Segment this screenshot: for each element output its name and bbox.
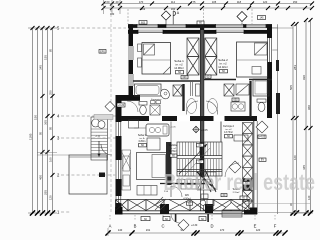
svg-text:A: A: [109, 224, 112, 229]
bedroom2 bed: [237, 42, 268, 77]
bottom grid letters A-F: [109, 215, 277, 229]
vent diamond left with section mark A: [161, 11, 179, 24]
entry plants: [92, 119, 100, 127]
bathroom1 door arc: [127, 101, 138, 112]
svg-text:170: 170: [139, 0, 144, 4]
svg-text:112: 112: [171, 0, 176, 4]
WC room label: [183, 193, 192, 205]
bottom small value boxes: [141, 217, 206, 221]
WC sink: [200, 200, 205, 205]
svg-text:250: 250: [49, 90, 53, 95]
right vertical dimension chain: [289, 18, 313, 216]
right exterior wall upper bedroom: [267, 24, 293, 118]
bottom exterior wall: [115, 204, 257, 222]
svg-text:603: 603: [183, 76, 188, 79]
svg-text:14.98m²: 14.98m²: [174, 66, 184, 70]
svg-text:+6.20: +6.20: [118, 104, 125, 107]
bathroom1 bathtub: [135, 84, 162, 96]
entry level diamond: [105, 102, 125, 112]
svg-text:603: 603: [234, 98, 239, 101]
stair label Stubiste: [169, 144, 178, 157]
entry door arc with arrow: [97, 141, 112, 157]
top wall extension dashes: [128, 9, 252, 24]
label Kuhinja 2: [223, 124, 234, 138]
hall door arc right: [206, 101, 218, 115]
small table: [147, 138, 160, 150]
right wall insulation x-braced band: [243, 123, 253, 212]
window inner frames lower left: [122, 150, 131, 190]
top horizontal dimension chain: [102, 0, 315, 16]
bottom door arc: [171, 214, 180, 223]
bathroom1 sink: [159, 88, 171, 101]
terrace label right: [221, 188, 240, 197]
bottom door diamond +2.30: [178, 220, 198, 231]
left grid labels 1-5: [57, 26, 126, 215]
svg-text:+2.30: +2.30: [191, 224, 198, 227]
svg-text:155: 155: [44, 55, 48, 60]
svg-text:120: 120: [49, 195, 53, 200]
svg-text:283: 283: [293, 65, 297, 70]
stair hall side walls: [171, 122, 221, 143]
bathroom1 toilet: [139, 102, 147, 115]
svg-text:EPS: EPS: [100, 50, 105, 53]
svg-text:+4.05: +4.05: [259, 136, 266, 139]
exterior entry stair: [91, 117, 108, 160]
terrace door diamond: [256, 121, 268, 162]
svg-text:B: B: [134, 224, 137, 229]
bottom horizontal dimension chain: [105, 228, 287, 236]
right terrace boundary wall: [272, 24, 280, 214]
bathroom2 duct x-box: [224, 84, 234, 96]
level marker +4.05: [193, 126, 208, 132]
svg-text:95: 95: [39, 131, 43, 135]
svg-text:F: F: [274, 224, 277, 229]
WC door arc: [164, 186, 182, 197]
svg-text:95: 95: [49, 126, 53, 130]
svg-text:460: 460: [39, 175, 43, 180]
kitchen2 counter: [234, 135, 248, 141]
bathroom2 toilet: [257, 99, 266, 112]
vertical grid dash line A: [110, 4, 112, 214]
top wall label box: [139, 21, 147, 25]
central party wall: [200, 24, 204, 211]
bathroom1 duct x-box: [173, 85, 182, 96]
kitchen1 fridge: [129, 120, 139, 128]
svg-text:255: 255: [44, 190, 48, 195]
bathroom value boxes: [232, 98, 239, 101]
bathroom2 shower: [253, 79, 269, 96]
right exterior wall lower: [254, 121, 257, 214]
door diamond right hall: [229, 161, 241, 173]
bathroom1 glass lines: [191, 82, 201, 96]
dining table: [137, 153, 168, 180]
svg-text:960: 960: [307, 105, 311, 110]
svg-text:85: 85: [49, 48, 53, 52]
svg-text:EV: EV: [261, 159, 265, 162]
kitchen counter strip WC room: [181, 185, 202, 190]
balcony door opening triangle: [122, 153, 131, 170]
left vertical dimension chain: [28, 26, 69, 216]
svg-text:+2.55: +2.55: [95, 136, 101, 138]
svg-text:505: 505: [289, 85, 293, 90]
bathroom zone bottom heavy wall: [121, 116, 257, 122]
hatched strip above WC: [177, 180, 212, 185]
left exterior wall upper: [128, 24, 133, 97]
svg-text:603: 603: [141, 21, 146, 24]
door arc right hall: [225, 163, 239, 177]
svg-text:100: 100: [110, 12, 115, 16]
svg-text:231: 231: [146, 228, 151, 232]
room label Soba 2: [218, 58, 228, 73]
svg-text:8.73m²: 8.73m²: [169, 150, 176, 153]
stair left wall hatched: [166, 142, 172, 185]
svg-text:1185: 1185: [29, 133, 33, 140]
left terrace: [69, 155, 107, 194]
svg-text:Soba 3: Soba 3: [138, 133, 147, 137]
svg-text:120: 120: [293, 155, 297, 160]
svg-text:160: 160: [49, 157, 53, 162]
bottom right label boxes: [240, 182, 250, 200]
svg-text:Kupaonica: Kupaonica: [151, 99, 162, 101]
exterior stair bottom right: [222, 203, 242, 218]
svg-text:0.80m: 0.80m: [139, 140, 146, 143]
svg-text:118: 118: [237, 0, 242, 4]
top exterior wall: [128, 24, 272, 34]
label Soba 3 terrace: [138, 133, 147, 147]
bedroom2 wardrobe: [205, 38, 217, 75]
sideboard below dining: [137, 186, 157, 196]
hatch wedge below dining: [155, 197, 166, 210]
svg-text:160: 160: [171, 7, 176, 11]
bedroom1 nightstands: [138, 44, 142, 52]
svg-text:170: 170: [220, 228, 225, 232]
svg-text:263: 263: [141, 7, 146, 11]
bathroom2 door leaf box: [236, 84, 249, 95]
kitchen1 upper line: [134, 127, 146, 129]
svg-text:150: 150: [293, 0, 298, 4]
svg-text:140: 140: [118, 228, 123, 232]
bathroom2 inner wall: [249, 81, 251, 117]
svg-text:Soba 1: Soba 1: [174, 59, 184, 63]
bedroom1 bed: [142, 43, 171, 75]
room label Soba 1: [174, 59, 184, 74]
svg-text:D: D: [210, 224, 213, 229]
WC cabinet: [207, 200, 214, 206]
svg-text:105: 105: [212, 0, 217, 4]
svg-text:365: 365: [44, 120, 48, 125]
terrace wall label box: [99, 173, 105, 178]
bedroom1 wardrobe: [187, 38, 199, 75]
svg-text:120: 120: [263, 0, 268, 4]
svg-text:Stubište: Stubište: [169, 144, 178, 147]
svg-text:14.02m²: 14.02m²: [218, 65, 228, 69]
stair dark lower flight: [197, 170, 216, 192]
svg-text:C: C: [161, 224, 164, 229]
svg-text:930: 930: [302, 75, 306, 80]
staircase: [177, 142, 222, 176]
hall door arc left: [186, 101, 198, 115]
bedroom-bathroom divider wall: [133, 78, 272, 81]
svg-text:Kuhinja 2: Kuhinja 2: [223, 124, 234, 128]
svg-text:+4.05: +4.05: [201, 128, 208, 132]
grid line row1 dashes right: [258, 212, 310, 214]
bathroom1 inner wall: [182, 84, 184, 111]
svg-text:345: 345: [39, 65, 43, 70]
svg-text:13.73m²: 13.73m²: [224, 131, 233, 134]
svg-text:120: 120: [256, 228, 261, 232]
svg-text:Soba 2: Soba 2: [218, 58, 228, 62]
entry slab: [94, 115, 113, 120]
bathroom1 washer: [150, 105, 160, 115]
bathroom2 washer dryer: [231, 102, 245, 111]
svg-text:145: 145: [260, 17, 265, 20]
stair mid label boxes: [197, 144, 204, 164]
svg-text:120: 120: [307, 195, 311, 200]
bathroom1 tiny boxes: [151, 101, 161, 104]
kitchen1 counter: [146, 124, 169, 136]
svg-text:ter. m2: ter. m2: [170, 147, 177, 150]
left exterior wall lower: [115, 95, 140, 215]
stair hall lower wall: [160, 183, 205, 185]
svg-text:E: E: [254, 224, 257, 229]
svg-text:150: 150: [34, 115, 38, 120]
SE corner column: [250, 208, 257, 215]
vent diamond right: [237, 12, 247, 25]
left wall label box: [99, 50, 106, 54]
svg-text:Broker real estate: Broker real estate: [164, 170, 315, 196]
bottom terrace railing x-braced: [116, 200, 251, 211]
svg-text:4.00m²: 4.00m²: [183, 197, 191, 200]
